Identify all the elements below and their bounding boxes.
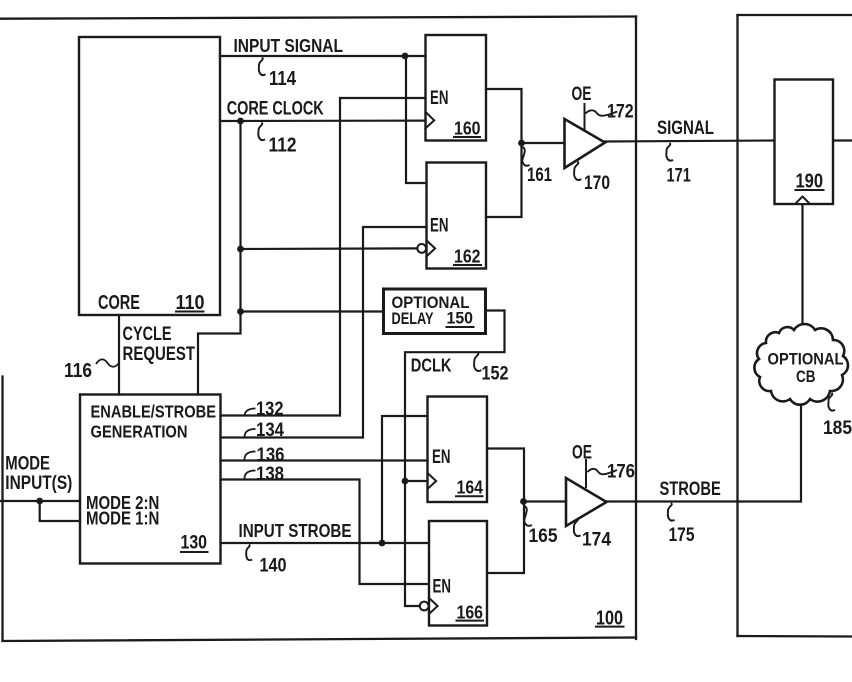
right outer box bottom edge: [738, 635, 852, 638]
svg-text:174: 174: [582, 530, 611, 551]
leader squiggle 132: [245, 409, 256, 417]
svg-text:GENERATION: GENERATION: [91, 422, 188, 442]
box 100 bottom edge: [3, 638, 637, 642]
wire CORE CLOCK branch to flip-flop 162 inverted clock: [241, 247, 418, 250]
junction CORE CLOCK at 162 clock line: [237, 246, 244, 253]
clock wedge flip-flop 160: [426, 112, 435, 128]
junction INPUT STROBE branch: [379, 540, 386, 547]
svg-text:EN: EN: [432, 447, 451, 468]
svg-text:OE: OE: [572, 442, 592, 464]
clock wedge flip-flop 166: [429, 598, 438, 614]
svg-text:MODE 1:N: MODE 1:N: [86, 508, 159, 529]
svg-text:112: 112: [269, 135, 297, 157]
OE stub wire into buffer 170: [584, 104, 586, 129]
OE stub wire into buffer 174: [585, 460, 587, 487]
leader squiggle 175: [668, 503, 675, 521]
svg-text:185: 185: [823, 417, 852, 439]
arrowhead into block 190: [795, 197, 810, 205]
svg-text:166: 166: [457, 601, 484, 622]
wire CORE CLOCK branch to OPTIONAL DELAY input: [241, 310, 384, 312]
junction node 165: [520, 498, 527, 505]
junction MODE INPUT(S) branch: [36, 498, 43, 505]
wire DCLK 152 from OPTIONAL DELAY output: [405, 311, 505, 482]
wire CORE CLOCK 112: CORE to flip-flop 160 clock: [220, 119, 426, 122]
leader squiggle 185: [828, 393, 835, 411]
svg-text:CYCLE: CYCLE: [123, 324, 172, 345]
flip-flop 164: [428, 397, 488, 503]
wire DCLK to flip-flop 164 clock: [405, 480, 428, 482]
block CORE 110: [79, 37, 220, 315]
svg-text:OPTIONAL: OPTIONAL: [768, 350, 844, 369]
tri-state buffer 170: [565, 119, 606, 168]
svg-text:165: 165: [529, 526, 558, 547]
svg-text:114: 114: [269, 68, 297, 90]
svg-text:STROBE: STROBE: [660, 479, 721, 500]
svg-text:INPUT SIGNAL: INPUT SIGNAL: [234, 35, 344, 56]
tri-state buffer 174: [566, 478, 607, 526]
wire STROBE 175 from buffer 174 to OPTIONAL CB: [607, 402, 802, 502]
svg-text:INPUT STROBE: INPUT STROBE: [239, 521, 352, 541]
svg-text:SIGNAL: SIGNAL: [657, 118, 714, 139]
wire CORE CLOCK branch down to block 130: [198, 312, 241, 395]
wire enable 136 to flip-flop 164 EN: [221, 459, 428, 461]
svg-text:160: 160: [454, 118, 481, 139]
junction node 161: [518, 140, 525, 147]
wire DCLK branch to flip-flop 166 inverted clock: [405, 481, 420, 606]
right outer box left edge: [736, 15, 738, 636]
svg-text:171: 171: [667, 166, 692, 187]
junction CORE CLOCK branch: [237, 118, 244, 125]
wire MODE INPUT(S) to block 130: [0, 500, 80, 502]
svg-text:170: 170: [584, 173, 610, 194]
svg-text:OE: OE: [572, 83, 592, 105]
wire flip-flop 166 output: [487, 502, 524, 574]
svg-text:INPUT(S): INPUT(S): [5, 473, 72, 494]
wire CYCLE REQUEST 116: CORE to block 130: [118, 315, 120, 395]
svg-text:CB: CB: [796, 367, 816, 386]
flip-flop 166: [429, 521, 487, 626]
svg-text:REQUEST: REQUEST: [123, 344, 196, 365]
svg-text:116: 116: [64, 360, 92, 382]
svg-text:175: 175: [669, 525, 695, 546]
svg-text:134: 134: [256, 420, 284, 441]
svg-text:136: 136: [257, 445, 285, 466]
wire MODE INPUT(S) branch to MODE 1:N: [40, 501, 80, 521]
svg-text:EN: EN: [433, 577, 452, 598]
block 190: [775, 80, 834, 205]
wire flip-flop 162 output: [486, 143, 522, 217]
inverting bubble flip-flop 166 clock: [420, 602, 429, 611]
wire CORE CLOCK vertical branch: [239, 121, 241, 312]
leader squiggle 172: [586, 110, 618, 115]
svg-text:DCLK: DCLK: [411, 355, 452, 376]
svg-text:EN: EN: [430, 88, 449, 109]
svg-text:176: 176: [607, 462, 635, 483]
svg-text:130: 130: [181, 533, 208, 554]
svg-text:150: 150: [447, 310, 474, 328]
svg-text:140: 140: [260, 555, 287, 577]
leader squiggle 161: [522, 147, 529, 166]
junction INPUT SIGNAL branch: [402, 53, 409, 60]
clock wedge flip-flop 164: [428, 473, 437, 489]
right outer box top edge: [738, 14, 852, 16]
leader squiggle 134: [245, 429, 256, 437]
wire enable 138 to flip-flop 166 EN: [221, 480, 430, 585]
wire INPUT STROBE 140 to flip-flop 166 D: [221, 542, 430, 544]
wire enable 134 to flip-flop 162 EN: [221, 227, 427, 438]
block OPTIONAL DELAY 150: [384, 289, 486, 334]
wire INPUT SIGNAL branch to flip-flop 162 D: [406, 56, 427, 183]
leader squiggle 170: [574, 162, 581, 180]
wire INPUT STROBE branch to flip-flop 164 D: [382, 416, 428, 543]
wire enable 132 to flip-flop 160 EN: [221, 98, 426, 416]
svg-text:152: 152: [482, 364, 509, 385]
svg-text:MODE: MODE: [5, 454, 50, 475]
svg-text:164: 164: [457, 477, 484, 498]
wire INPUT SIGNAL 114: CORE to flip-flop 160 D: [220, 55, 426, 57]
inverting bubble flip-flop 162 clock: [417, 244, 426, 253]
wire flip-flop 164 output: [487, 449, 524, 502]
leader squiggle 112: [258, 123, 265, 141]
flip-flop 160: [426, 35, 487, 141]
svg-text:CORE: CORE: [98, 292, 140, 314]
leader squiggle 140: [246, 545, 252, 561]
junction DCLK at 164 clock: [402, 478, 409, 485]
block ENABLE/STROBE GENERATION 130: [80, 395, 221, 564]
svg-text:EN: EN: [430, 216, 449, 237]
wire SIGNAL continuing right of block 190: [833, 139, 852, 141]
wire flip-flop 160 output: [486, 89, 522, 143]
flip-flop 162: [427, 163, 487, 269]
leader squiggle 152: [474, 353, 481, 371]
wire node 165 to buffer 174: [524, 500, 567, 502]
svg-text:172: 172: [607, 102, 634, 123]
leader squiggle 136: [245, 452, 256, 460]
svg-text:CORE CLOCK: CORE CLOCK: [227, 98, 324, 120]
svg-text:138: 138: [256, 464, 284, 485]
clock wedge flip-flop 162: [427, 240, 436, 256]
junction CORE CLOCK at delay line: [237, 308, 244, 315]
box 100 top edge: [0, 17, 636, 19]
leader squiggle 116: [96, 359, 119, 366]
svg-text:132: 132: [256, 399, 284, 420]
cloud OPTIONAL CB 185: [754, 324, 848, 405]
box 100 left edge (partial): [1, 377, 3, 641]
leader squiggle 165: [524, 506, 532, 526]
svg-text:ENABLE/STROBE: ENABLE/STROBE: [91, 402, 217, 422]
svg-text:162: 162: [454, 246, 481, 267]
svg-text:DELAY: DELAY: [392, 310, 434, 328]
wire node 161 to buffer 170: [522, 142, 565, 144]
leader squiggle 138: [245, 471, 256, 479]
leader squiggle 176: [588, 469, 618, 474]
leader squiggle 174: [574, 519, 581, 537]
wire block 190 to OPTIONAL CB: [801, 204, 803, 326]
leader squiggle 171: [666, 143, 673, 161]
svg-text:161: 161: [527, 165, 552, 186]
wire SIGNAL 171 from buffer 170 to block 190: [605, 141, 775, 142]
leader squiggle 114: [259, 58, 266, 76]
box 100 right edge: [635, 17, 637, 640]
